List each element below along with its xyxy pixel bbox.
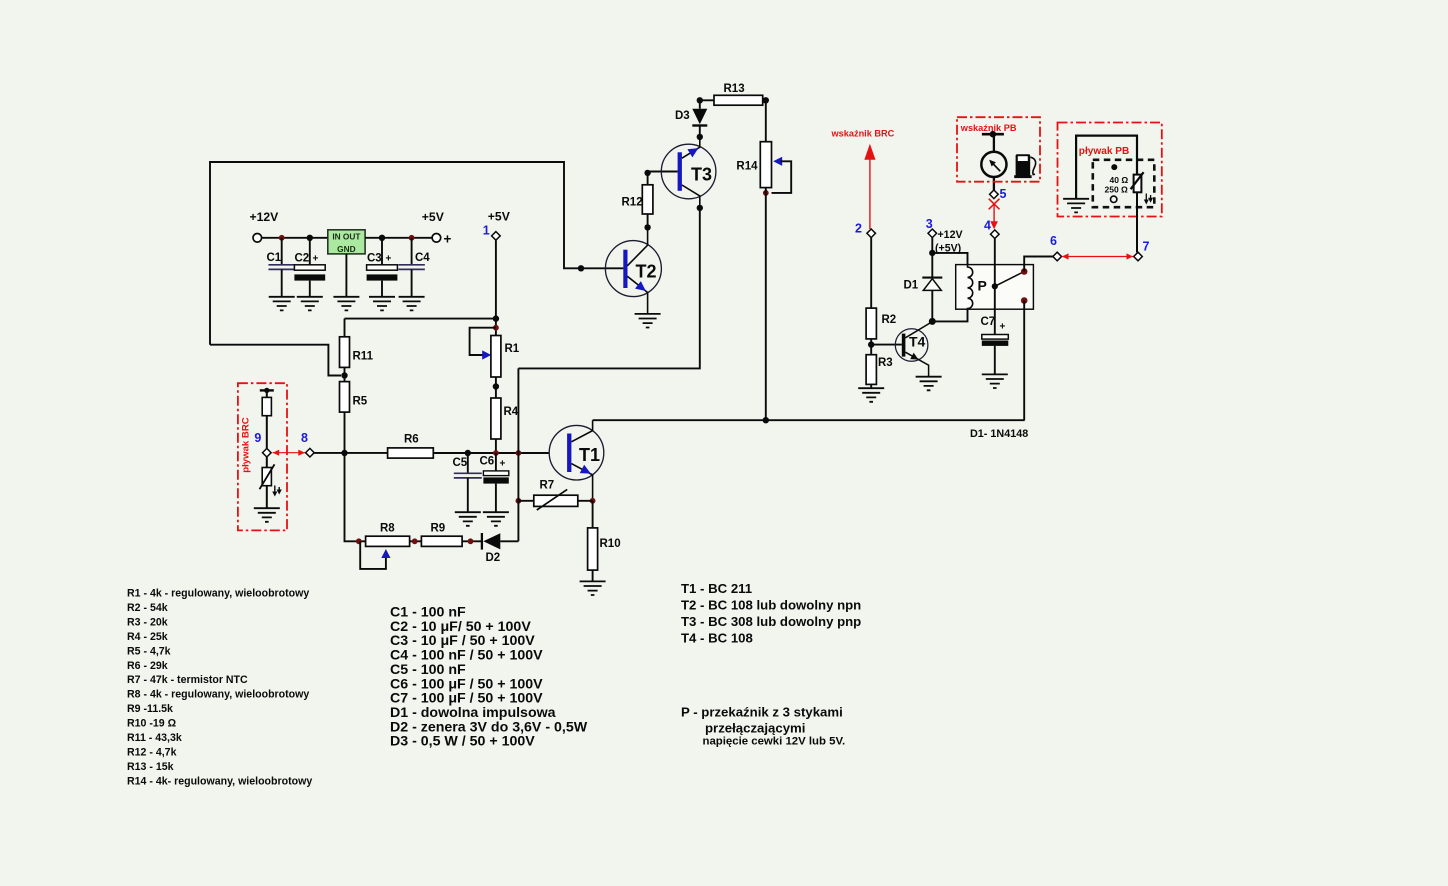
svg-text:C7: C7 — [981, 316, 996, 328]
svg-text:+12V: +12V — [938, 229, 963, 241]
svg-text:+: + — [500, 459, 506, 470]
svg-text:R11: R11 — [353, 351, 374, 363]
svg-text:R10 -19 Ω: R10 -19 Ω — [127, 718, 177, 730]
svg-text:T4: T4 — [909, 334, 926, 350]
svg-text:R6: R6 — [404, 434, 419, 446]
svg-text:R2: R2 — [882, 314, 897, 326]
svg-text:pływak PB: pływak PB — [1079, 146, 1130, 157]
svg-text:250 Ω: 250 Ω — [1105, 185, 1129, 195]
svg-text:P: P — [978, 278, 987, 294]
svg-text:wskaźnik BRC: wskaźnik BRC — [831, 129, 895, 139]
svg-text:+: + — [313, 254, 319, 265]
svg-text:7: 7 — [1143, 240, 1150, 254]
svg-text:C4: C4 — [415, 252, 430, 264]
svg-text:3: 3 — [926, 217, 933, 231]
svg-text:przełączającymi: przełączającymi — [705, 721, 805, 736]
svg-text:R6 - 29k: R6 - 29k — [127, 660, 168, 672]
svg-text:T2: T2 — [636, 262, 657, 282]
svg-text:P - przekaźnik z 3 stykami: P - przekaźnik z 3 stykami — [681, 705, 843, 720]
svg-text:D2: D2 — [486, 552, 501, 564]
svg-text:C5: C5 — [453, 457, 468, 469]
svg-text:D3 - 0,5 W / 50 + 100V: D3 - 0,5 W / 50 + 100V — [390, 734, 535, 750]
svg-text:R4: R4 — [504, 406, 519, 418]
svg-text:T3: T3 — [691, 165, 712, 185]
svg-text:R2 - 54k: R2 - 54k — [127, 602, 168, 614]
svg-text:R1 - 4k - regulowany, wieloobr: R1 - 4k - regulowany, wieloobrotowy — [127, 588, 309, 600]
svg-text:9: 9 — [254, 431, 261, 445]
svg-text:1: 1 — [483, 224, 490, 238]
svg-text:R9 -11.5k: R9 -11.5k — [127, 703, 173, 715]
svg-text:C1: C1 — [267, 252, 282, 264]
svg-text:R7: R7 — [540, 480, 555, 492]
svg-text:+12V: +12V — [250, 210, 280, 224]
svg-text:8: 8 — [301, 431, 308, 445]
svg-text:D3: D3 — [675, 110, 690, 122]
svg-text:T1: T1 — [579, 445, 600, 465]
svg-text:T2 - BC 108 lub dowolny npn: T2 - BC 108 lub dowolny npn — [681, 597, 861, 612]
svg-text:R3 - 20k: R3 - 20k — [127, 616, 168, 628]
svg-text:pływak BRC: pływak BRC — [241, 417, 252, 473]
svg-text:T3 - BC 308 lub dowolny pnp: T3 - BC 308 lub dowolny pnp — [681, 614, 861, 629]
svg-text:T4 - BC 108: T4 - BC 108 — [681, 630, 753, 645]
svg-text:R14: R14 — [736, 161, 758, 173]
svg-text:R7 - 47k - termistor NTC: R7 - 47k - termistor NTC — [127, 674, 248, 686]
svg-text:R12: R12 — [622, 197, 643, 209]
svg-text:6: 6 — [1050, 234, 1057, 248]
svg-text:+: + — [444, 231, 452, 246]
svg-text:IN OUT: IN OUT — [332, 232, 360, 242]
svg-text:+: + — [386, 254, 392, 265]
svg-text:R5: R5 — [353, 396, 368, 408]
svg-text:wskaźnik PB: wskaźnik PB — [960, 123, 1017, 133]
svg-text:R1: R1 — [505, 343, 520, 355]
svg-text:R9: R9 — [431, 523, 446, 535]
svg-text:GND: GND — [337, 244, 355, 254]
svg-text:R11 - 43,3k: R11 - 43,3k — [127, 732, 182, 744]
svg-text:4: 4 — [984, 219, 991, 233]
svg-text:R13 - 15k: R13 - 15k — [127, 761, 174, 773]
svg-text:+: + — [1000, 322, 1006, 333]
svg-text:R13: R13 — [724, 83, 745, 95]
svg-text:D1: D1 — [904, 280, 919, 292]
svg-text:D1- 1N4148: D1- 1N4148 — [970, 428, 1028, 440]
svg-text:R5 - 4,7k: R5 - 4,7k — [127, 645, 171, 657]
svg-text:2: 2 — [855, 222, 862, 236]
svg-text:R8 - 4k - regulowany, wieloobr: R8 - 4k - regulowany, wieloobrotowy — [127, 689, 309, 701]
svg-text:T1 - BC 211: T1 - BC 211 — [681, 581, 752, 596]
svg-text:+5V: +5V — [488, 210, 511, 224]
svg-text:40 Ω: 40 Ω — [1110, 175, 1129, 185]
svg-text:C6: C6 — [480, 456, 495, 468]
svg-text:R14 - 4k- regulowany, wieloobr: R14 - 4k- regulowany, wieloobrotowy — [127, 775, 312, 787]
svg-text:+5V: +5V — [422, 210, 445, 224]
svg-text:R10: R10 — [600, 538, 621, 550]
svg-text:C2: C2 — [295, 253, 310, 265]
svg-text:R12 - 4,7k: R12 - 4,7k — [127, 746, 177, 758]
svg-text:napięcie cewki 12V lub 5V.: napięcie cewki 12V lub 5V. — [703, 736, 846, 748]
svg-text:C3: C3 — [367, 253, 382, 265]
svg-text:R4 - 25k: R4 - 25k — [127, 631, 168, 643]
svg-text:R8: R8 — [380, 523, 395, 535]
svg-text:5: 5 — [1000, 187, 1007, 201]
svg-text:R3: R3 — [878, 357, 893, 369]
